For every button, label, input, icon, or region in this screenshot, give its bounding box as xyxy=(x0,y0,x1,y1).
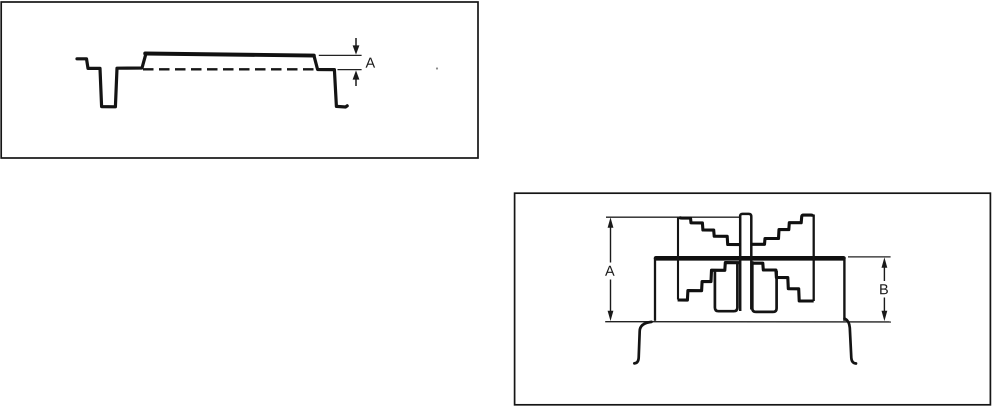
svg-text:B: B xyxy=(879,282,889,298)
arrow down to upper line xyxy=(355,38,357,47)
groove vertical left xyxy=(677,218,679,300)
extension line lower (A) xyxy=(338,69,362,71)
central tie-bar xyxy=(740,214,751,311)
svg-text:A: A xyxy=(605,264,615,280)
profile plateau top (worn face) xyxy=(145,54,314,56)
tread block left (rounded bottom) xyxy=(715,264,738,312)
tread block right (rounded bottom) xyxy=(752,261,776,312)
arrow up to lower line xyxy=(355,78,357,86)
panel 1 frame xyxy=(1,2,478,158)
profile outline (ring cross-section) xyxy=(77,53,146,106)
upper-right staircase xyxy=(751,215,813,244)
tread outer left edge xyxy=(654,259,656,321)
dimension line B xyxy=(883,265,885,281)
panel 2 frame xyxy=(515,193,991,405)
dimension line A (panel 2) xyxy=(610,225,612,263)
groove vertical right xyxy=(813,215,815,302)
lower-right staircase xyxy=(751,263,813,301)
extension line top (A, panel 2) xyxy=(606,216,740,218)
upper-left staircase xyxy=(679,218,740,245)
tread outer right edge xyxy=(843,257,845,321)
left leg xyxy=(634,322,651,364)
extension line top (B) xyxy=(848,256,891,258)
lower-left staircase xyxy=(678,263,740,301)
stray scan dot xyxy=(436,67,438,69)
right leg xyxy=(845,319,856,364)
extension line bottom (A and B) xyxy=(605,321,891,323)
extension line upper (A) xyxy=(319,54,362,56)
tread thick centre line xyxy=(656,256,843,261)
dashed original-surface line xyxy=(143,68,315,70)
svg-text:A: A xyxy=(365,56,375,72)
profile outline right side xyxy=(314,56,347,107)
